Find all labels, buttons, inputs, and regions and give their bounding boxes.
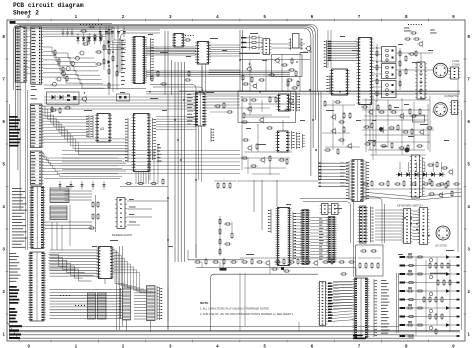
wire hbus mid-left xyxy=(44,97,196,109)
pin comb U1 right xyxy=(151,38,154,80)
IC U7 xyxy=(276,131,295,152)
power parts left ext xyxy=(194,258,237,268)
module box M1 xyxy=(272,55,303,77)
labels top right xyxy=(404,24,437,33)
connector CN19 xyxy=(346,160,368,202)
connector CN13 xyxy=(450,101,460,115)
wire fan from CN3 CN3a xyxy=(42,106,127,176)
resistor cluster RA xyxy=(82,34,102,45)
drawing title xyxy=(13,2,84,17)
joystick connector xyxy=(435,226,450,248)
wire fan CN7 upper xyxy=(50,250,99,276)
pin comb CN4 lower xyxy=(211,128,214,142)
wire section divider xyxy=(319,92,322,180)
wire fan from CN2 staircase xyxy=(43,27,126,88)
wire CN8 CN9 stubs down xyxy=(127,320,151,332)
connector CN3a xyxy=(30,151,43,185)
regulator VR1 xyxy=(50,106,71,114)
connector small S2 xyxy=(330,204,340,215)
connector CN12 xyxy=(408,50,460,79)
hatched block H2 xyxy=(50,206,67,220)
caps row above CN5 xyxy=(59,181,106,190)
wire power rail xyxy=(196,258,356,268)
wire from CN6 xyxy=(127,199,168,225)
transistor Q2 xyxy=(81,92,87,102)
wire CN1 CN2 links xyxy=(26,30,31,73)
power parts row xyxy=(241,258,355,266)
svg-text:PCB circuit diagram: PCB circuit diagram xyxy=(13,2,84,9)
driver inter clusters xyxy=(423,262,451,335)
wire right of CN4 xyxy=(207,96,241,113)
svg-text:KEYBOARD SWITCH: KEYBOARD SWITCH xyxy=(397,204,422,208)
connector CN20 xyxy=(410,155,425,198)
parts below U6 xyxy=(270,266,290,275)
wire verticals left margin xyxy=(26,60,28,250)
wire CN4 down xyxy=(199,126,202,182)
control rows top-center xyxy=(239,35,263,54)
connector CN8a xyxy=(88,293,96,319)
wire drops to diode row xyxy=(400,162,442,172)
cassette label xyxy=(444,94,458,98)
IC U10 xyxy=(327,69,350,95)
IC U5 xyxy=(125,114,155,172)
hatched block H1 xyxy=(50,188,69,203)
jack block J2 xyxy=(382,64,397,79)
pin comb U6 left xyxy=(268,209,271,233)
wire comb drop pair xyxy=(328,30,331,68)
connector CN11 xyxy=(327,217,337,263)
wire audio web xyxy=(322,95,376,160)
pin comb top U7 xyxy=(291,93,301,112)
net label blobs CN7 xyxy=(9,286,19,323)
diode row top xyxy=(404,32,423,48)
note box wire xyxy=(188,250,244,271)
analog cluster A2 xyxy=(241,139,288,167)
parts chain mid xyxy=(287,78,299,92)
wire bus vertical mid xyxy=(165,31,172,330)
net labels CN17 xyxy=(381,280,390,334)
svg-text:CASSETTE: CASSETTE xyxy=(444,94,458,98)
wire bus left vertical xyxy=(7,104,20,341)
wire verticals under center xyxy=(254,180,277,230)
keyboard strip K1 xyxy=(402,209,413,244)
svg-text:Sheet 2: Sheet 2 xyxy=(13,10,39,17)
transistor Q4 cluster xyxy=(242,63,265,89)
connector CN5 xyxy=(29,187,45,249)
wire U3-CN4 links xyxy=(202,64,240,92)
wire keyboard links xyxy=(375,210,420,240)
relay K1 xyxy=(289,34,305,51)
cassette parts row1 xyxy=(361,104,421,119)
wire top rail AB xyxy=(10,21,113,24)
driver rows Q10-Q18 xyxy=(400,253,460,337)
wire bus top-right xyxy=(327,42,358,61)
wire drops control rows xyxy=(250,52,300,92)
wire bus U1-U3 xyxy=(146,47,290,76)
svg-text:CONN: CONN xyxy=(452,62,460,66)
wire tv links xyxy=(396,53,450,71)
parts chain right of U8 xyxy=(372,44,382,102)
wire hbus y150-172 xyxy=(62,151,240,185)
wire section boundary y181 xyxy=(237,180,318,182)
wire CN16 to CN17 xyxy=(333,273,355,309)
transistor Q3 xyxy=(240,44,312,60)
wire links U6 area xyxy=(293,214,328,260)
wire right margin verticals xyxy=(458,80,462,330)
wire long mid horizontals xyxy=(44,92,460,330)
wire vertical bundle x116 xyxy=(117,246,123,330)
connector CN3 xyxy=(30,95,43,148)
net labels CN7 xyxy=(9,253,20,282)
connector CN8b xyxy=(98,293,107,319)
parts chain PC1 xyxy=(95,25,111,95)
svg-text:NOTE: NOTE xyxy=(200,301,208,305)
wire verticals x113 xyxy=(112,40,118,92)
cassette parts row3 xyxy=(364,140,423,151)
IC U11 xyxy=(277,94,291,111)
wire hline under Q1 xyxy=(44,85,146,89)
wire hbus U5 right xyxy=(156,117,196,162)
capacitor row C1-C6 xyxy=(99,26,126,37)
connector CN9 xyxy=(147,286,160,321)
junction grid keyboard xyxy=(404,217,429,236)
svg-text:MODEM AUDIO: MODEM AUDIO xyxy=(112,233,133,237)
resistor cluster RC1 xyxy=(214,181,236,189)
connector CN18 xyxy=(261,39,271,55)
connector CN7 xyxy=(28,252,46,321)
wire cassette web xyxy=(362,104,434,150)
scattered net labels xyxy=(66,33,454,255)
IC U6 xyxy=(276,208,296,266)
wires in module M2 xyxy=(240,97,276,115)
IC U8 tall xyxy=(357,38,374,105)
wire vertical x240 xyxy=(240,30,243,92)
connector CN2 xyxy=(31,27,43,90)
net label block left xyxy=(9,116,21,147)
audio bus pads xyxy=(319,163,321,187)
IC U4 xyxy=(95,114,112,143)
note text xyxy=(200,301,294,316)
wire converge xyxy=(362,189,462,200)
jack block J1 xyxy=(382,47,397,63)
jack block J3 xyxy=(382,81,397,98)
wire bus corner left xyxy=(118,30,160,75)
wire CN8-CN9 links xyxy=(134,290,147,319)
RF connector TV xyxy=(433,59,460,78)
wire verticals x150-160 xyxy=(150,144,158,184)
module box Q1 xyxy=(47,92,80,104)
IC U1 xyxy=(121,37,147,85)
wire fan CN7 lower xyxy=(50,290,123,319)
bus pads top-right xyxy=(328,41,331,61)
wire bus vertical x175-184 xyxy=(175,62,184,262)
connector small S1 xyxy=(320,204,330,215)
resistor group R-col xyxy=(88,195,99,232)
wire staircase CN7-U9 xyxy=(49,255,94,282)
wire bottom connects xyxy=(240,268,356,332)
resistor chain RC2 xyxy=(219,216,233,256)
parts cluster right-mid xyxy=(427,161,453,198)
connector CN1 xyxy=(15,27,27,90)
bus labels bottom xyxy=(9,325,22,339)
pin comb bus left xyxy=(324,40,327,68)
pin comb CN15 xyxy=(371,207,374,243)
audio parts xyxy=(324,100,352,155)
connector CN16 xyxy=(318,282,328,326)
wire vertical x196 xyxy=(196,66,202,258)
connector CN17 xyxy=(353,278,377,338)
connector CN6 MODEM AUDIO xyxy=(112,198,133,238)
cassette parts row2 xyxy=(363,122,433,135)
small box B2 xyxy=(117,94,130,101)
wire bus bottom xyxy=(9,327,460,339)
module box M2 xyxy=(238,91,296,123)
box above CN17 xyxy=(356,245,384,276)
wire hbus right of U3 xyxy=(209,45,240,56)
parts row RS1 xyxy=(362,180,460,187)
wire ring to CN17 xyxy=(300,199,354,278)
wire verticals CN5-CN7 xyxy=(52,205,70,250)
IC U2 xyxy=(172,34,194,48)
analog cluster A1 xyxy=(241,96,293,129)
wire bus corner mid xyxy=(146,85,460,95)
IC U9 xyxy=(97,247,115,285)
parts row y183 xyxy=(120,178,168,187)
wire driver vertical xyxy=(426,260,450,332)
connector CN15 xyxy=(358,206,368,243)
svg-text:A3: A3 xyxy=(100,127,104,131)
parts near U1 right xyxy=(151,70,191,85)
connector CN8 xyxy=(119,287,131,320)
wire CN9 right stubs xyxy=(160,286,169,321)
wire fan CN16 diagonal xyxy=(328,282,354,322)
keyboard strip K2 xyxy=(418,208,430,245)
svg-text:JOYSTICK: JOYSTICK xyxy=(435,245,448,248)
wire web analog xyxy=(242,96,295,170)
resistor ladder RL1 xyxy=(399,48,407,90)
wires analog lower xyxy=(240,158,290,175)
DIN connector cassette xyxy=(434,103,448,117)
wire bus ring top xyxy=(14,25,318,211)
IC U4 comb xyxy=(86,115,93,138)
net blobs under CN17 xyxy=(353,335,366,340)
IC U3 xyxy=(195,42,211,65)
diode row CR1-CR6 xyxy=(396,172,446,177)
wire audio bus xyxy=(319,163,349,187)
diode row D1-D4 xyxy=(80,24,102,32)
keyboard label xyxy=(397,204,422,208)
wire vertical CN17 xyxy=(397,273,399,333)
cassette extra web xyxy=(362,96,434,155)
svg-text:2. FOR USE OF +5V ON CIRCUIT B: 2. FOR USE OF +5V ON CIRCUIT BOARD POINT… xyxy=(200,312,294,316)
wire boundary path mid xyxy=(211,274,319,331)
connector CN10 xyxy=(300,210,310,265)
net label column CN5 xyxy=(12,188,27,248)
comb right of U7 xyxy=(297,132,305,149)
wire bus corner right xyxy=(360,198,385,243)
connector CN4 xyxy=(187,93,207,127)
wire right of CN5 xyxy=(45,191,93,228)
connector CN21 xyxy=(415,62,427,99)
wire staircase U9 to CN8 xyxy=(112,250,156,293)
